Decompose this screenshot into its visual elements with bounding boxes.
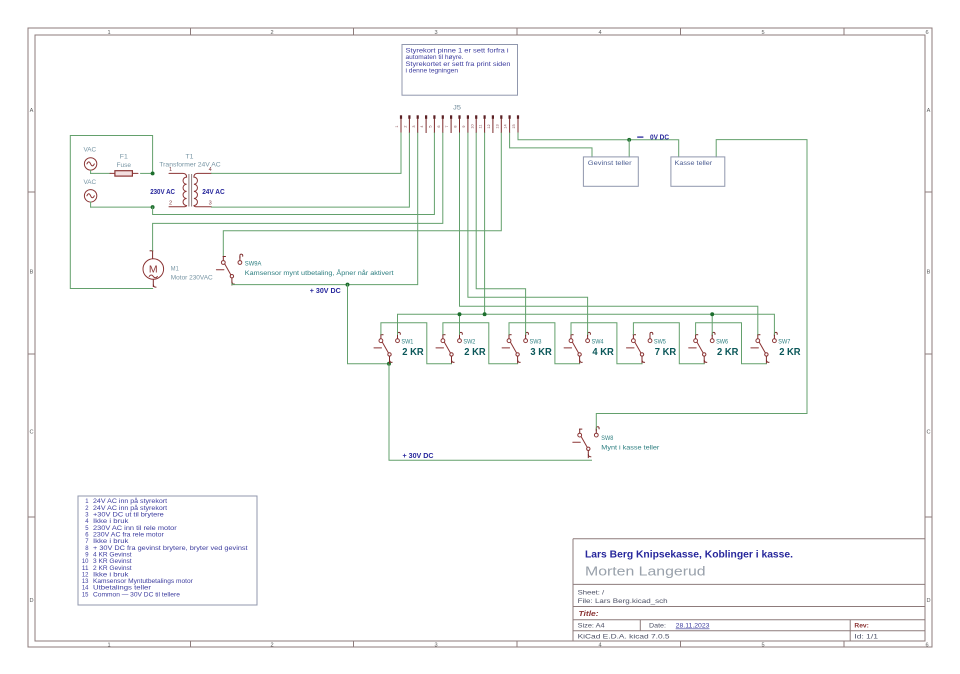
- wire VAC1 to fuse: [90, 170, 92, 173]
- svg-text:13: 13: [82, 579, 89, 585]
- wire +30V junction down to SW1 common: [348, 285, 390, 364]
- title block frame: [573, 538, 925, 540]
- switch None: [216, 254, 242, 285]
- svg-text:A: A: [30, 108, 34, 114]
- svg-text:SW3: SW3: [530, 339, 542, 346]
- J5 pin 7: [445, 115, 452, 133]
- svg-text:A: A: [927, 108, 931, 114]
- svg-text:4: 4: [420, 125, 424, 127]
- svg-text:12: 12: [487, 124, 491, 128]
- svg-text:Common — 30V DC til tellere: Common — 30V DC til tellere: [93, 592, 181, 598]
- svg-text:0V DC: 0V DC: [650, 132, 670, 141]
- svg-text:24V AC: 24V AC: [202, 187, 225, 196]
- svg-text:C: C: [29, 430, 33, 436]
- svg-text:2 KR Gevinst: 2 KR Gevinst: [93, 566, 132, 572]
- counter box Gevinst teller: [583, 157, 638, 186]
- svg-text:2 KR: 2 KR: [779, 347, 801, 358]
- switch None: [374, 332, 400, 363]
- wire J5 pin1 to T1 pin4 (24V AC): [212, 133, 402, 173]
- svg-text:230V AC fra rele motor: 230V AC fra rele motor: [93, 532, 164, 538]
- svg-text:5: 5: [761, 642, 764, 648]
- wire fuse to junction A: [141, 172, 153, 174]
- J5 pin 14: [504, 115, 511, 133]
- node junction fuse/transformer pin1: [151, 171, 155, 175]
- svg-text:28.11.2023: 28.11.2023: [676, 623, 710, 630]
- wire J5 pin15 0V DC to tellers: [518, 133, 679, 157]
- svg-text:+ 30V DC: + 30V DC: [403, 451, 435, 460]
- svg-text:+ 30V DC fra gevinst brytere,: + 30V DC fra gevinst brytere, bryter ved…: [93, 546, 248, 552]
- svg-text:Gevinst teller: Gevinst teller: [588, 160, 632, 167]
- svg-text:SW7: SW7: [778, 339, 790, 346]
- voltage source VAC1: [84, 158, 96, 170]
- svg-text:15: 15: [512, 124, 516, 128]
- svg-text:+30V DC ut til brytere: +30V DC ut til brytere: [93, 513, 165, 519]
- svg-text:2: 2: [270, 642, 273, 648]
- svg-text:2: 2: [169, 201, 172, 207]
- switch None: [573, 427, 599, 458]
- svg-text:4: 4: [598, 642, 601, 648]
- svg-text:Rev:: Rev:: [854, 623, 869, 630]
- wire J5 pin6 to motor M1 top: [153, 133, 443, 250]
- svg-text:10: 10: [82, 559, 89, 565]
- wire rail to SW2 right terminal: [459, 314, 461, 334]
- svg-text:4 KR: 4 KR: [592, 347, 614, 358]
- svg-text:M: M: [149, 263, 158, 275]
- svg-text:Transformer 24V AC: Transformer 24V AC: [159, 162, 221, 169]
- svg-text:6: 6: [925, 30, 928, 36]
- voltage source VAC2: [84, 190, 96, 202]
- switch None: [564, 332, 590, 363]
- svg-text:Kamsensor mynt utbetaling, Åpn: Kamsensor mynt utbetaling, Åpner når akt…: [245, 270, 394, 277]
- wire bypass loop SW1 left to SW2 output: [381, 323, 452, 364]
- svg-text:SW5: SW5: [654, 339, 666, 346]
- svg-text:F1: F1: [120, 154, 129, 161]
- svg-text:SW2: SW2: [463, 339, 475, 346]
- J5 pin 5: [429, 115, 436, 133]
- svg-text:9: 9: [462, 125, 466, 127]
- svg-text:2 KR: 2 KR: [717, 347, 739, 358]
- J5 pin 10: [470, 115, 477, 133]
- svg-text:11: 11: [82, 566, 89, 572]
- note box: J5 pin legend list: [78, 496, 257, 605]
- J5 pin 12: [487, 115, 494, 133]
- wire junction down to Gevinst teller: [628, 140, 630, 157]
- switch None: [689, 332, 715, 363]
- svg-text:2: 2: [404, 125, 408, 127]
- svg-text:8: 8: [454, 125, 458, 127]
- fuse F1: [110, 171, 138, 176]
- svg-text:Styrekortet er sett fra print: Styrekortet er sett fra print siden: [406, 62, 511, 68]
- svg-text:C: C: [926, 430, 930, 436]
- svg-text:SW4: SW4: [592, 339, 604, 346]
- J5 pin 1: [395, 115, 402, 133]
- svg-text:2: 2: [270, 30, 273, 36]
- svg-text:Date:: Date:: [649, 623, 666, 630]
- wire 230V loop top: [70, 136, 152, 289]
- svg-text:Ikke i bruk: Ikke i bruk: [93, 539, 130, 545]
- svg-text:Kasse teller: Kasse teller: [675, 160, 713, 167]
- svg-text:Title:: Title:: [579, 609, 600, 618]
- transformer T1: [169, 173, 212, 206]
- node junction SW1 common / +30V rail: [387, 362, 391, 366]
- motor M1: [143, 250, 164, 287]
- svg-text:1: 1: [107, 30, 110, 36]
- wire +30V DC bottom rail to SW8: [389, 364, 592, 461]
- J5 pin 6: [437, 115, 444, 133]
- border column ticks: [190, 28, 192, 35]
- svg-text:3: 3: [434, 30, 437, 36]
- wire J5 pin14 to Gevinst teller: [510, 133, 592, 157]
- wire J5 pin11 to 2KR rail: [484, 133, 486, 314]
- svg-text:3: 3: [209, 201, 212, 207]
- svg-text:Ikke i bruk: Ikke i bruk: [93, 572, 130, 578]
- svg-text:KiCad E.D.A. kicad 7.0.5: KiCad E.D.A. kicad 7.0.5: [578, 633, 671, 640]
- J5 pin 9: [462, 115, 469, 133]
- svg-text:D: D: [29, 598, 33, 604]
- wire bypass loop SW2 left to SW3 output: [443, 323, 518, 364]
- wire J5 pin10 to SW3 right terminal: [476, 133, 525, 334]
- svg-text:6: 6: [437, 125, 441, 127]
- svg-text:4 KR Gevinst: 4 KR Gevinst: [93, 552, 132, 558]
- svg-text:Sheet: /: Sheet: /: [578, 590, 605, 597]
- svg-text:11: 11: [479, 125, 483, 129]
- svg-text:File: Lars Berg.kicad_sch: File: Lars Berg.kicad_sch: [578, 598, 669, 605]
- svg-text:3 KR: 3 KR: [530, 347, 552, 358]
- wire bypass loop SW3 left to SW4 output: [509, 323, 580, 364]
- wire bypass loop SW4 left to SW5 output: [571, 323, 642, 364]
- node junction 0V DC / Gevinst teller: [627, 138, 631, 142]
- svg-text:SW6: SW6: [716, 339, 728, 346]
- wire SW8 right terminal to Kasse teller rail: [596, 140, 807, 429]
- svg-text:230V AC inn til rele motor: 230V AC inn til rele motor: [93, 526, 177, 532]
- svg-text:Id: 1/1: Id: 1/1: [854, 633, 878, 640]
- J5 pin 2: [404, 115, 411, 133]
- switch None: [751, 332, 777, 363]
- svg-text:SW9A: SW9A: [245, 261, 262, 268]
- svg-text:SW1: SW1: [401, 339, 413, 346]
- svg-text:10: 10: [470, 124, 474, 128]
- svg-text:4: 4: [598, 30, 601, 36]
- svg-text:1: 1: [395, 125, 399, 127]
- svg-text:2 KR: 2 KR: [402, 347, 424, 358]
- svg-text:13: 13: [495, 124, 499, 128]
- svg-text:24V AC inn på styrekort: 24V AC inn på styrekort: [93, 505, 167, 512]
- svg-text:3 KR Gevinst: 3 KR Gevinst: [93, 559, 132, 565]
- svg-text:automaten til høyre.: automaten til høyre.: [406, 55, 464, 61]
- J5 pin 4: [420, 115, 427, 133]
- svg-text:VAC: VAC: [84, 147, 97, 154]
- wire J5 pin8 to SW7 left terminal: [460, 133, 758, 334]
- J5 pin 11: [479, 115, 486, 133]
- wire bypass loop SW6 left to SW7 output: [696, 323, 767, 364]
- J5 pin 15: [512, 115, 519, 133]
- svg-text:230V AC: 230V AC: [150, 187, 175, 196]
- svg-text:T1: T1: [186, 154, 195, 161]
- svg-text:Kamsensor Myntutbetalings moto: Kamsensor Myntutbetalings motor: [93, 579, 193, 585]
- switch None: [627, 332, 653, 363]
- wire J5 pin13 to SW9A left terminal: [223, 133, 501, 256]
- J5 pin 13: [495, 115, 502, 133]
- svg-text:Morten Langerud: Morten Langerud: [585, 565, 706, 579]
- switch None: [436, 332, 462, 363]
- J5 pin 3: [412, 115, 419, 133]
- svg-text:SW8: SW8: [601, 435, 613, 442]
- node junction VAC2/transformer pin2: [151, 205, 155, 209]
- svg-text:Ikke i bruk: Ikke i bruk: [93, 519, 130, 525]
- svg-text:24V AC inn på styrekort: 24V AC inn på styrekort: [93, 498, 167, 505]
- wire J5 pin9 to SW4 right terminal: [468, 133, 588, 334]
- svg-text:3: 3: [412, 125, 416, 127]
- wire 2 KR rail (SW1,SW2,SW6,SW7 right terminals, J5 pins 8/11): [398, 314, 775, 334]
- svg-text:7 KR: 7 KR: [655, 347, 677, 358]
- note box: styrekort orientation note: [402, 45, 518, 96]
- svg-text:2 KR: 2 KR: [464, 347, 486, 358]
- wire J5 pin2 to T1 pin3 (24V AC): [212, 133, 410, 207]
- wire VAC2 to junction: [90, 202, 92, 207]
- svg-text:B: B: [927, 270, 931, 276]
- svg-text:1: 1: [107, 642, 110, 648]
- wire J5 pin5 to 230V junction: [153, 133, 435, 215]
- svg-text:Motor 230VAC: Motor 230VAC: [171, 274, 213, 281]
- svg-text:14: 14: [82, 586, 89, 592]
- node junction +30V feed to switches: [346, 283, 350, 287]
- svg-text:J5: J5: [453, 105, 462, 111]
- svg-text:5: 5: [429, 125, 433, 127]
- svg-text:B: B: [30, 270, 34, 276]
- wire SW9A output to J5 pin3 (+30V DC): [232, 133, 418, 285]
- node junction rail/SW2: [458, 312, 462, 316]
- svg-text:Lars Berg Knipsekasse, Kobling: Lars Berg Knipsekasse, Koblinger i kasse…: [585, 550, 793, 561]
- svg-text:i denne tegningen: i denne tegningen: [406, 68, 459, 74]
- svg-text:15: 15: [82, 592, 89, 598]
- switch None: [502, 332, 528, 363]
- svg-text:14: 14: [504, 124, 508, 128]
- svg-text:Fuse: Fuse: [117, 162, 132, 169]
- svg-text:12: 12: [82, 572, 89, 578]
- net label 0V DC: [637, 136, 643, 138]
- svg-text:M1: M1: [171, 265, 180, 272]
- node junction rail/pin11: [483, 312, 487, 316]
- svg-text:Utbetalings teller: Utbetalings teller: [93, 586, 151, 592]
- J5 pin 8: [454, 115, 461, 133]
- svg-text:+ 30V DC: + 30V DC: [310, 286, 342, 295]
- svg-text:Mynt i kasse teller: Mynt i kasse teller: [601, 445, 659, 452]
- counter box Kasse teller: [671, 157, 725, 186]
- svg-text:6: 6: [925, 642, 928, 648]
- svg-text:VAC: VAC: [84, 179, 97, 186]
- border row ticks: [28, 191, 35, 193]
- node junction rail/SW6: [710, 312, 714, 316]
- svg-text:5: 5: [761, 30, 764, 36]
- svg-text:D: D: [926, 598, 930, 604]
- svg-text:3: 3: [434, 642, 437, 648]
- svg-text:Styrekort pinne 1 er sett forf: Styrekort pinne 1 er sett forfra i: [406, 49, 509, 55]
- wire bypass loop SW5 left to SW6 output: [633, 323, 704, 364]
- wire rail to SW6 right terminal: [711, 314, 713, 334]
- svg-text:Size: A4: Size: A4: [578, 623, 606, 630]
- svg-text:7: 7: [445, 125, 449, 127]
